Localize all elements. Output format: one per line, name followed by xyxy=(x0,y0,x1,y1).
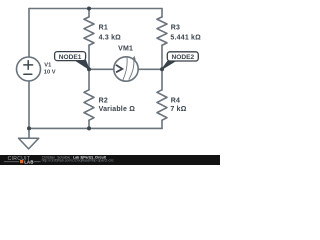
wire R3 to node B xyxy=(161,45,163,69)
svg-text:R1: R1 xyxy=(99,25,108,32)
wire R3 branch top lead xyxy=(161,9,163,17)
NODE1 flag tail xyxy=(75,60,90,70)
junction dot bottom of R2 xyxy=(87,126,91,130)
wire R4 bottom lead xyxy=(161,120,163,128)
logo orange square xyxy=(20,160,23,163)
resistor R3 xyxy=(157,17,167,45)
svg-text:R2: R2 xyxy=(99,97,108,104)
voltmeter arrowhead xyxy=(132,56,136,60)
svg-text:NODE2: NODE2 xyxy=(171,54,194,61)
NODE2 flag box xyxy=(167,52,198,61)
svg-text:R3: R3 xyxy=(171,25,180,32)
voltmeter needle arc 2 xyxy=(129,59,134,80)
svg-text:VM1: VM1 xyxy=(118,46,133,53)
wire R2 branch top lead xyxy=(88,69,90,90)
V1 plus sign xyxy=(24,61,33,75)
wire R4 branch top lead xyxy=(161,69,163,90)
svg-text:V1: V1 xyxy=(44,62,51,68)
wire R2 bottom lead xyxy=(88,120,90,128)
V1 minus sign xyxy=(24,73,32,75)
svg-text:http://circuitlab.com/c/2mqwaa: http://circuitlab.com/c/2mqwaa8r/lab-3pa… xyxy=(42,159,114,163)
voltmeter needle arc 1 xyxy=(123,56,127,80)
resistor R4 xyxy=(157,90,167,120)
voltmeter VM1 circle xyxy=(114,57,138,81)
svg-text:7 kΩ: 7 kΩ xyxy=(170,106,186,113)
NODE1 flag box xyxy=(55,52,86,61)
wire voltmeter to node B xyxy=(138,68,162,70)
svg-text:4.3 kΩ: 4.3 kΩ xyxy=(99,35,122,42)
CircuitLab logo wordmark xyxy=(4,156,114,165)
resistor R2 xyxy=(84,90,94,120)
voltmeter arrow chevron xyxy=(116,65,122,72)
svg-text:Variable Ω: Variable Ω xyxy=(99,106,136,113)
junction dot top of R1 xyxy=(87,7,91,11)
resistor R1 xyxy=(84,17,94,45)
svg-text:R4: R4 xyxy=(171,97,180,104)
wire left vertical upper xyxy=(28,9,30,58)
svg-text:5.441 kΩ: 5.441 kΩ xyxy=(170,35,201,42)
svg-text:10 V: 10 V xyxy=(44,69,56,75)
voltage source V1 circle xyxy=(17,57,41,81)
svg-text:LAB: LAB xyxy=(24,159,34,164)
wire R1 branch top lead xyxy=(88,9,90,17)
logo rule right xyxy=(34,160,41,163)
junction dot ground xyxy=(27,126,31,130)
wire R1 to node A xyxy=(88,45,90,69)
junction node A dot xyxy=(87,67,91,71)
ground stub xyxy=(28,128,30,138)
wire bottom horizontal xyxy=(29,127,162,129)
wire top horizontal xyxy=(29,8,162,10)
svg-text:NODE1: NODE1 xyxy=(59,54,82,61)
footer bar xyxy=(0,155,220,165)
junction node B dot xyxy=(160,67,164,71)
ground symbol triangle xyxy=(19,138,39,149)
logo rule left xyxy=(4,160,19,163)
NODE2 flag tail xyxy=(162,60,177,69)
wire left vertical lower xyxy=(28,81,30,128)
wire node A to voltmeter xyxy=(89,68,114,70)
